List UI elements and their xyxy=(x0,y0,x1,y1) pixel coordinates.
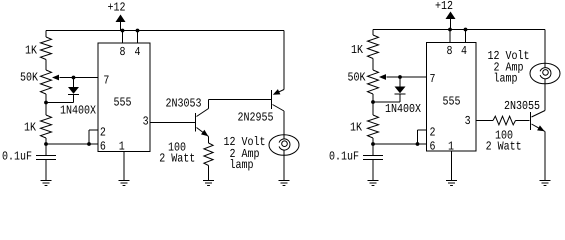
wire +12 top rail (left) xyxy=(46,30,284,32)
resistor 1K (left, bottom) xyxy=(24,115,52,138)
pin 2 label (right) xyxy=(430,126,436,140)
IC 555 label (right) xyxy=(443,95,461,109)
IC 555 box (left) xyxy=(98,43,150,152)
wire diode cathode to rail (left) xyxy=(46,102,74,104)
svg-text:2: 2 xyxy=(430,126,436,140)
svg-text:50K: 50K xyxy=(348,71,367,85)
wire 1K to cap junction (right) xyxy=(372,138,374,144)
svg-text:0.1uF: 0.1uF xyxy=(2,150,32,164)
svg-text:1N400X: 1N400X xyxy=(60,103,97,117)
wire bracket pin2 (right) xyxy=(418,130,427,144)
resistor 1K (right, top) xyxy=(351,35,379,59)
wire 2N3055 emitter to ground xyxy=(544,132,546,181)
svg-text:1K: 1K xyxy=(350,121,363,135)
svg-text:1: 1 xyxy=(119,140,125,154)
wire between 1K and 50K (left) xyxy=(45,60,47,71)
resistor 100 2W (left) xyxy=(159,140,213,165)
wire right rail top segment xyxy=(372,30,374,36)
svg-text:6: 6 xyxy=(430,140,436,154)
transistor 2N3053 collector xyxy=(197,100,209,117)
svg-text:6: 6 xyxy=(100,139,106,153)
wiper arrow of 50K (right) xyxy=(379,74,400,80)
transistor 2N3055 emitter xyxy=(532,124,546,132)
capacitor 0.1uF (right) xyxy=(329,144,383,180)
diode 1N400X (right) xyxy=(385,77,422,116)
svg-text:50K: 50K xyxy=(20,71,39,85)
transistor 2N2955 emitter xyxy=(273,89,284,95)
IC 555 label (left) xyxy=(114,96,132,110)
svg-text:2: 2 xyxy=(100,126,106,140)
pin 7 label (right) xyxy=(430,72,436,86)
node pin2/6 bracket junction (left) xyxy=(87,142,91,146)
ground (left cap) xyxy=(41,181,52,186)
svg-text:555: 555 xyxy=(114,96,132,110)
wire lamp to collector (right) xyxy=(544,79,546,84)
node wiper junction (left) xyxy=(72,76,76,80)
svg-text:7: 7 xyxy=(430,72,436,86)
potentiometer 50K (left) xyxy=(20,70,52,94)
pin 6 label (right) xyxy=(430,140,436,154)
svg-text:1K: 1K xyxy=(25,43,38,57)
resistor 1K (left, top) xyxy=(25,37,52,60)
ground (right 555 pin 1) xyxy=(446,181,457,186)
pin 8 label (left) xyxy=(120,45,126,59)
wire junction to pins 2/6 (right) xyxy=(373,143,427,145)
wire +12 top rail (right) xyxy=(373,29,545,31)
resistor 1K (right, bottom) xyxy=(350,115,379,138)
svg-text:2N3053: 2N3053 xyxy=(166,97,202,111)
svg-text:+12: +12 xyxy=(435,0,453,13)
lamp label (left) xyxy=(224,135,266,172)
wire pin 3 to base resistor (right) xyxy=(476,120,493,122)
node cap junction (right) xyxy=(371,142,375,146)
pin 4 stub (right) xyxy=(465,30,467,43)
wiper arrow of 50K (left) xyxy=(52,75,74,81)
svg-text:1K: 1K xyxy=(351,43,364,57)
svg-text:lamp: lamp xyxy=(494,71,518,85)
svg-text:3: 3 xyxy=(143,115,149,129)
ground (left 555 pin 1) xyxy=(119,181,130,186)
wire 2N2955 collector to lamp xyxy=(283,111,285,139)
node diode-rail junction (right) xyxy=(371,100,375,104)
svg-text:7: 7 xyxy=(103,74,109,88)
transistor 2N2955 base bar xyxy=(271,90,273,109)
lamp 12V 2A (right) xyxy=(530,63,560,84)
ground (left lamp) xyxy=(279,181,290,186)
pin 6 label (left) xyxy=(100,139,106,153)
resistor 100 2W (right) xyxy=(486,116,522,153)
svg-text:2 Watt: 2 Watt xyxy=(486,140,522,154)
svg-text:0.1uF: 0.1uF xyxy=(329,150,359,164)
pin 3 label (right) xyxy=(465,114,471,128)
pin 8 stub (left) xyxy=(122,31,124,44)
wire wiper to pin 7 (right) xyxy=(400,76,427,78)
wire lamp to ground (left) xyxy=(283,151,285,181)
node diode-rail junction (left) xyxy=(44,101,48,105)
node cap junction (left) xyxy=(44,142,48,146)
pin 1 label (left) xyxy=(119,140,125,154)
lamp label (right) xyxy=(488,49,530,85)
wire pin 1 to ground (right) xyxy=(451,151,453,180)
node pin 8 rail junction (right) xyxy=(448,28,452,32)
pin 4 label (left) xyxy=(135,45,141,59)
node pin 4 rail junction (left) xyxy=(136,29,140,33)
wire between 1K and 50K (right) xyxy=(372,59,374,71)
svg-text:2N2955: 2N2955 xyxy=(238,111,274,125)
wire base resistor to 2N3055 base xyxy=(516,120,530,122)
power +12 supply symbol (right) xyxy=(435,0,456,29)
svg-text:2 Watt: 2 Watt xyxy=(159,151,195,165)
pin 3 label (left) xyxy=(143,115,149,129)
wire rail down to 2N2955 emitter xyxy=(283,31,285,90)
wire 50K to 1K (left) xyxy=(45,94,47,115)
ground (left 100 ohm) xyxy=(203,181,214,186)
pin 2 label (left) xyxy=(100,126,106,140)
ground (right cap) xyxy=(368,181,379,186)
transistor 2N3053 emitter xyxy=(197,128,209,137)
wire 2N3053 collector to 2N2955 base xyxy=(209,99,272,101)
wire 50K to 1K (right) xyxy=(372,94,374,115)
transistor 2N3053 base bar xyxy=(195,113,197,132)
svg-text:2N3055: 2N3055 xyxy=(504,99,540,113)
transistor 2N2955 collector xyxy=(273,105,285,112)
svg-text:8: 8 xyxy=(447,44,453,58)
diode 1N400X (left) xyxy=(60,78,97,118)
potentiometer 50K (right) xyxy=(348,70,379,94)
svg-text:8: 8 xyxy=(120,45,126,59)
transistor 2N3055 label xyxy=(504,99,540,113)
svg-text:1K: 1K xyxy=(24,120,37,134)
wire pin 1 to ground (left) xyxy=(123,152,125,181)
svg-text:4: 4 xyxy=(135,45,141,59)
node pin 4 rail junction (right) xyxy=(464,28,468,32)
IC 555 box (right) xyxy=(427,43,477,152)
pin 7 label (left) xyxy=(103,74,109,88)
wire 1K to cap junction (left) xyxy=(45,138,47,144)
transistor 2N3055 base bar xyxy=(530,112,532,130)
wire bracket pin2 (left) xyxy=(89,130,98,144)
ground (right 2N3055 emitter) xyxy=(540,181,551,186)
node wiper junction (right) xyxy=(398,75,402,79)
svg-text:lamp: lamp xyxy=(230,158,254,172)
wire junction to pins 2/6 (left) xyxy=(46,143,98,145)
transistor 2N2955 label xyxy=(238,111,274,125)
wire diode cathode to rail (right) xyxy=(373,101,400,103)
transistor 2N3053 label xyxy=(166,97,202,111)
wire rail down to lamp (right) xyxy=(544,30,546,69)
transistor 2N3055 collector xyxy=(532,84,546,117)
pin 8 label (right) xyxy=(447,44,453,58)
pin 8 stub (right) xyxy=(449,30,451,43)
pin 4 label (right) xyxy=(461,44,467,58)
wire left rail top segment xyxy=(45,31,47,38)
wire 2N3053 emitter down xyxy=(208,137,210,144)
power +12 supply symbol (left) xyxy=(108,1,126,31)
svg-text:4: 4 xyxy=(461,44,467,58)
wire pin 3 to transistor base (left) xyxy=(150,122,196,124)
node pin2/6 bracket junction (right) xyxy=(416,142,420,146)
pin 1 label (right) xyxy=(448,140,454,154)
capacitor 0.1uF (left) xyxy=(2,144,56,180)
svg-text:1N400X: 1N400X xyxy=(385,102,422,116)
svg-text:+12: +12 xyxy=(108,1,126,15)
wire wiper to pin 7 (left) xyxy=(74,77,99,79)
lamp 12V 2A (left) xyxy=(269,135,299,156)
svg-text:555: 555 xyxy=(443,95,461,109)
pin 4 stub (left) xyxy=(137,31,139,44)
node pin 8 rail junction (left) xyxy=(121,29,125,33)
wire 100 ohm to ground (left) xyxy=(208,166,210,181)
svg-text:3: 3 xyxy=(465,114,471,128)
